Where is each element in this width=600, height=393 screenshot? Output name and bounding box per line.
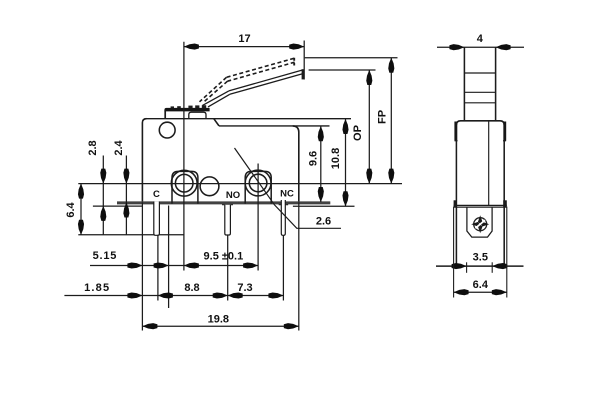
svg-text:3.5: 3.5 — [473, 252, 488, 264]
svg-text:C: C — [153, 189, 160, 200]
svg-text:6.4: 6.4 — [473, 279, 489, 291]
svg-text:4: 4 — [477, 33, 484, 45]
svg-text:8.8: 8.8 — [184, 282, 199, 294]
svg-text:2.6: 2.6 — [316, 216, 331, 228]
svg-text:NC: NC — [280, 188, 294, 199]
svg-text:9.5 ±0.1: 9.5 ±0.1 — [204, 251, 244, 263]
svg-text:7.3: 7.3 — [237, 282, 252, 294]
svg-text:6.4: 6.4 — [65, 201, 77, 217]
svg-text:10.8: 10.8 — [330, 148, 342, 169]
svg-text:FP: FP — [377, 110, 389, 124]
svg-text:19.8: 19.8 — [208, 313, 229, 325]
svg-text:9.6: 9.6 — [308, 151, 320, 166]
svg-text:2.8: 2.8 — [87, 140, 99, 155]
svg-text:5.15: 5.15 — [93, 250, 118, 262]
svg-text:2.4: 2.4 — [113, 139, 125, 155]
svg-text:NO: NO — [226, 190, 240, 201]
svg-text:OP: OP — [352, 125, 364, 141]
svg-text:1.85: 1.85 — [84, 282, 110, 294]
svg-text:17: 17 — [238, 33, 250, 45]
